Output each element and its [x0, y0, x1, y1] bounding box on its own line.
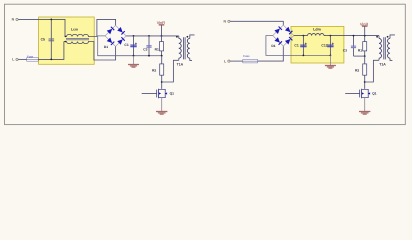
wire drain node to transformer primary bottom (right) — [365, 60, 379, 82]
svg-text:R1: R1 — [358, 48, 362, 52]
wire DC minus from bridge left vertex (right) — [266, 36, 331, 56]
bridge rectifier D1 (right) — [271, 25, 293, 48]
power port VinR (left) — [157, 20, 166, 36]
node drain junction (left) — [161, 81, 163, 83]
junction bus C3 — [148, 55, 150, 57]
junction bus C1 — [133, 55, 135, 57]
transformer primary dot — [176, 36, 178, 38]
wire N to bridge top (right) — [230, 21, 283, 25]
ground under C1 (left) — [128, 56, 139, 67]
svg-text:VinR: VinR — [360, 21, 369, 26]
wire source to ground (left) — [161, 98, 163, 111]
junction rail C3 (right) — [353, 35, 355, 37]
junction rail C12 — [330, 35, 332, 37]
junction bus R1 R2 (right) — [364, 55, 366, 57]
wire N to choke — [18, 19, 65, 36]
svg-text:C1: C1 — [124, 43, 128, 47]
capacitor C1 (left, electrolytic) — [124, 36, 136, 56]
wire L to fuse (right) — [230, 60, 243, 62]
inductor Ldm — [308, 27, 324, 35]
power port VinR (right) — [360, 21, 369, 35]
svg-text:R2: R2 — [152, 68, 156, 72]
terminal L (left) — [12, 58, 18, 62]
svg-text:R2: R2 — [355, 68, 359, 72]
snubber bus wire (right) — [354, 55, 365, 57]
junction rail VinR R1 — [161, 35, 163, 37]
DC plus rail (right) — [294, 35, 379, 37]
svg-text:T1A: T1A — [379, 63, 386, 67]
svg-text:C5: C5 — [41, 37, 45, 41]
node drain junction (right) — [364, 81, 366, 83]
wire fuse to bridge bottom (right) — [258, 46, 284, 61]
capacitor C5 — [41, 19, 55, 59]
svg-text:C12: C12 — [321, 43, 327, 47]
ground under Q1 (left) — [156, 112, 167, 115]
transformer secondary dot (right) — [387, 36, 389, 38]
resistor R1 (left) — [155, 36, 164, 56]
wire choke bottom out to bridge bottom — [89, 42, 116, 61]
wire choke top out to bridge top — [89, 19, 116, 36]
EMI filter highlight block (right) — [291, 26, 344, 63]
capacitor C3 (right) — [343, 36, 356, 57]
resistor R2 (left) — [152, 56, 164, 89]
svg-text:Fuse: Fuse — [243, 54, 250, 58]
wire fuse to choke bottom — [38, 42, 64, 60]
junction bus C12 (right) — [330, 55, 332, 57]
svg-text:C3: C3 — [343, 48, 347, 52]
common-mode choke Lcm — [64, 28, 89, 44]
transformer T1A (right) — [379, 35, 395, 67]
wire drain node to transformer primary bottom — [162, 60, 179, 82]
junction rail C3 — [148, 35, 150, 37]
svg-text:T1A: T1A — [177, 63, 184, 67]
capacitor C1 (right, electrolytic) — [294, 36, 306, 56]
fuse Fuse (left) — [27, 54, 39, 61]
terminal N (left) — [12, 18, 19, 22]
mosfet Q1 (right) — [360, 89, 377, 98]
junction bus C1 (right) — [303, 55, 305, 57]
junction bus R1 R2 — [161, 55, 163, 57]
wire gate dangling (right) — [345, 93, 359, 95]
wire gate dangling (left) — [142, 93, 157, 95]
svg-text:D1: D1 — [104, 45, 108, 49]
capacitor C3 (left) — [143, 36, 151, 56]
svg-text:D1: D1 — [271, 44, 275, 48]
fuse Fuse (right) — [243, 54, 258, 63]
bridge rectifier D1 (left) — [104, 25, 126, 49]
junction rail VinR R1 (right) — [364, 35, 366, 37]
ground under C12 (right) — [325, 55, 336, 68]
svg-text:Q1: Q1 — [170, 92, 175, 96]
DC plus rail (left) — [126, 35, 179, 37]
svg-text:Ldm: Ldm — [313, 27, 321, 31]
junction C5 bottom — [50, 59, 52, 61]
svg-text:C1: C1 — [294, 43, 298, 47]
choke polarity dot bottom — [65, 41, 67, 43]
svg-text:VinR: VinR — [157, 20, 166, 25]
junction rail C1 (right) — [303, 35, 305, 37]
terminal N (right) — [224, 20, 230, 24]
mosfet Q1 (left) — [157, 89, 174, 98]
transformer primary dot (right) — [376, 36, 378, 38]
svg-text:C3: C3 — [143, 48, 147, 52]
wire source to ground (right) — [364, 98, 366, 111]
terminal L (right) — [224, 59, 230, 63]
junction rail C1 — [133, 35, 135, 37]
capacitor C12 (right, electrolytic) — [321, 36, 333, 56]
wire DC minus from bridge left vertex — [98, 36, 162, 56]
junction C5 top — [50, 19, 52, 21]
EMI filter highlight block (left) — [39, 17, 95, 64]
svg-text:R1: R1 — [155, 48, 159, 52]
wire L to fuse — [18, 58, 26, 60]
resistor R2 (right) — [355, 56, 367, 89]
resistor R1 (right) — [358, 36, 367, 57]
svg-text:Lcm: Lcm — [71, 28, 78, 32]
svg-text:Q1: Q1 — [372, 92, 377, 96]
transformer secondary dot — [187, 36, 189, 38]
transformer T1A (left) — [177, 35, 195, 67]
ground under Q1 (right) — [359, 112, 370, 115]
choke polarity dot top — [65, 36, 67, 38]
